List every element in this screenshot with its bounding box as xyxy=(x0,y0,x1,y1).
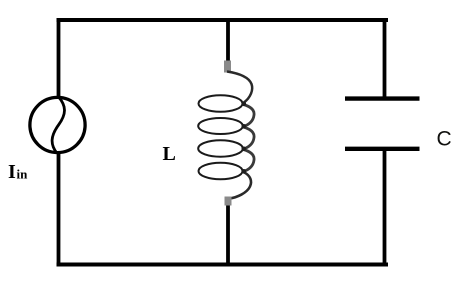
inductor L loop 2 xyxy=(198,118,243,134)
current source Iin circle xyxy=(30,97,85,152)
wire middle vertical (bottom of inductor) xyxy=(226,202,230,266)
wire right vertical (bottom of capacitor) xyxy=(383,150,387,266)
inductor L bottom terminal stub xyxy=(225,197,232,206)
capacitor C bottom plate xyxy=(345,147,420,151)
wire left vertical (top of source) xyxy=(57,18,61,98)
inductor L right arc 3-4 xyxy=(244,150,255,172)
inductor L loop 3 xyxy=(198,140,243,156)
inductor L entry curve xyxy=(227,72,252,103)
svg-text:in: in xyxy=(17,167,29,182)
wire left vertical (bottom of source) xyxy=(57,152,61,266)
inductor L right arc 1-2 xyxy=(244,105,255,127)
inductor L loop 4 xyxy=(199,163,243,180)
inductor L right arc 2-3 xyxy=(244,127,255,149)
wire right vertical (top of capacitor) xyxy=(383,18,387,97)
wire top horizontal xyxy=(57,18,389,22)
inductor L exit curve xyxy=(230,172,252,199)
capacitor C top plate xyxy=(345,96,420,100)
svg-text:C: C xyxy=(437,128,452,151)
inductor L junction dots xyxy=(242,102,247,174)
wire middle vertical (top of inductor) xyxy=(226,18,230,63)
inductor L loop 1 xyxy=(199,95,243,112)
svg-text:L: L xyxy=(163,143,176,165)
inductor L top terminal stub xyxy=(224,61,231,73)
current source sine curve xyxy=(52,97,64,153)
svg-text:I: I xyxy=(8,161,16,183)
wire bottom horizontal xyxy=(57,263,389,267)
